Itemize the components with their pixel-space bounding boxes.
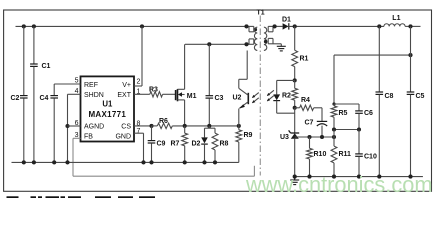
wire V+ pin 2 (134, 85, 142, 87)
node R1 top junction (293, 24, 297, 28)
diode D1 (282, 25, 284, 27)
svg-text:SHDN: SHDN (84, 92, 104, 99)
capacitor C2 (23, 26, 25, 95)
svg-text:CS: CS (121, 123, 131, 130)
wire R4 lead (295, 107, 300, 109)
svg-text:FB: FB (84, 133, 93, 140)
isolation barrier dash-dot line (259, 16, 261, 176)
svg-text:GND: GND (115, 133, 131, 140)
svg-text:C5: C5 (416, 93, 425, 100)
node T1 secondary top junction (273, 24, 277, 28)
svg-text:V+: V+ (122, 82, 131, 89)
wire sense down to R5 (333, 55, 335, 104)
svg-text:T1: T1 (257, 9, 265, 16)
transformer T1 primary coil (254, 27, 257, 50)
capacitor C1 (33, 26, 35, 63)
node T1 primary top junction (244, 24, 248, 28)
wire U3 ref line (295, 136, 334, 138)
wire R2 bottom to U3 (294, 108, 296, 133)
node rail junction SHDN riser (65, 160, 69, 164)
svg-text:R7: R7 (171, 141, 180, 148)
svg-text:D2: D2 (192, 141, 201, 148)
wire top input rail (16, 25, 250, 27)
U2 light arrows (252, 93, 258, 98)
wire AGND pin 6 (68, 125, 81, 127)
capacitor C4 (53, 84, 55, 95)
resistor R5 (333, 104, 335, 106)
svg-text:EXT: EXT (117, 92, 131, 99)
svg-text:C8: C8 (385, 93, 394, 100)
node secondary rail junction R11 (332, 175, 336, 179)
node C6 bottom junction (357, 127, 361, 131)
svg-text:R6: R6 (159, 118, 168, 125)
LED light arrows (267, 90, 274, 95)
capacitor C10 (358, 130, 360, 154)
node rail junction D2 (202, 160, 206, 164)
capacitor C5 (410, 26, 412, 55)
border frame (4, 10, 432, 191)
capacitor C3 (208, 44, 210, 95)
svg-text:R10: R10 (314, 151, 327, 158)
T1 phase dot primary (254, 28, 257, 31)
node R7 top junction (183, 124, 187, 128)
wire FB pin 3 (73, 137, 81, 139)
svg-text:R11: R11 (339, 151, 352, 158)
T1 phase dot secondary (264, 40, 267, 43)
wire REF pin 5 (54, 83, 80, 85)
svg-text:C3: C3 (215, 95, 224, 102)
transistor U2 phototransistor (247, 93, 249, 104)
wire R4 to C7 (314, 107, 322, 109)
wire SHDN pin 4 (68, 93, 81, 95)
svg-text:R4: R4 (301, 97, 310, 104)
wire after L1 (405, 25, 420, 27)
svg-text:C10: C10 (364, 154, 377, 161)
capacitor C7 (317, 120, 327, 122)
node VIN junction C1 (32, 24, 36, 28)
wire divider mid line (334, 129, 359, 131)
node AGND junction (65, 124, 69, 128)
wire GND pin 7 (134, 132, 144, 134)
wire T1 secondary bottom lead (273, 43, 281, 45)
node R4 junction (293, 106, 297, 110)
node R5 bottom junction (332, 127, 336, 131)
wire R3 to gate (163, 93, 176, 95)
node rail junction C4 (52, 160, 56, 164)
node C8 top junction (377, 24, 381, 28)
resistor R3 (150, 92, 163, 97)
wire secondary ground rail (295, 176, 423, 178)
svg-text:C6: C6 (364, 110, 373, 117)
wire EXT pin 1 (134, 93, 150, 95)
svg-text:REF: REF (84, 82, 98, 89)
wire D2 R8 top bar (208, 126, 210, 128)
wire CS to R6 (152, 125, 158, 127)
op-amp U1 MAX1771 box (81, 76, 135, 141)
svg-text:MAX1771: MAX1771 (88, 110, 126, 119)
transformer T1 secondary coil (264, 27, 267, 50)
node rail junction C9 (149, 160, 153, 164)
node secondary rail junction U3 (293, 175, 297, 179)
svg-text:2: 2 (137, 79, 141, 86)
wire C6 branch (334, 103, 359, 105)
op-amp U3 shunt regulator (291, 132, 300, 134)
wire R6 to R9 (172, 125, 239, 127)
svg-text:M1: M1 (187, 93, 197, 100)
wire primary ground rail (12, 161, 239, 163)
diode D2 (204, 128, 206, 137)
node secondary rail junction R10 (307, 175, 311, 179)
svg-text:R8: R8 (220, 141, 229, 148)
svg-text:R1: R1 (300, 56, 309, 63)
capacitor C9 (151, 126, 153, 140)
node secondary rail junction C10 (357, 175, 361, 179)
node C3 bottom junction (207, 124, 211, 128)
svg-text:R3: R3 (149, 87, 158, 94)
node T1 primary bottom junction (244, 42, 248, 46)
capacitor C8 (378, 26, 380, 91)
svg-text:D1: D1 (282, 16, 291, 23)
wire output sense line (334, 54, 411, 56)
node rail junction R8 (213, 160, 217, 164)
resistor R1 (294, 26, 296, 50)
svg-text:U3: U3 (280, 134, 289, 141)
resistor R2 (292, 88, 298, 100)
capacitor C6 (358, 104, 360, 111)
node C7 bottom junction (320, 135, 324, 139)
node rail junction R7 (183, 160, 187, 164)
resistor R7 (184, 126, 186, 133)
caption text top edge (7, 196, 19, 198)
node rail junction C2 (22, 160, 26, 164)
resistor R4 (300, 105, 314, 110)
inductor L1 (384, 24, 405, 27)
node R11 top junction (332, 135, 336, 139)
node CS C9 junction (149, 124, 153, 128)
resistor R9 (238, 126, 240, 130)
resistor R11 (333, 130, 335, 147)
node R10 top junction (307, 135, 311, 139)
node sense C5 junction (408, 53, 412, 57)
svg-text:C2: C2 (11, 95, 20, 102)
node rail junction C1 (32, 160, 36, 164)
svg-text:C9: C9 (157, 141, 166, 148)
node R2 top junction (293, 78, 297, 82)
wire T1 secondary top lead (273, 25, 283, 27)
wire output line (289, 25, 384, 27)
wire FB feedback run (73, 175, 254, 177)
ground secondary (294, 177, 296, 180)
svg-text:AGND: AGND (84, 123, 104, 130)
svg-text:www.cntronics.com: www.cntronics.com (245, 172, 433, 197)
node secondary rail junction C5 (408, 175, 412, 179)
svg-text:C1: C1 (42, 63, 51, 70)
node secondary rail junction C8 (377, 175, 381, 179)
node rail junction GND pin (141, 160, 145, 164)
node R9 top junction (237, 124, 241, 128)
resistor R10 (309, 137, 311, 148)
transformer T1 primary top hook (248, 26, 250, 31)
svg-text:L1: L1 (392, 15, 400, 22)
svg-text:U2: U2 (233, 95, 242, 102)
node C3 top junction (207, 42, 211, 46)
transformer T1 secondary bottom hook (267, 38, 269, 43)
node VIN junction C2 (22, 24, 26, 28)
transformer T1 primary bottom hook (248, 39, 250, 44)
ground T1 secondary (277, 45, 286, 47)
node C6 branch junction (332, 102, 335, 105)
svg-text:R5: R5 (339, 110, 348, 117)
transistor M1 (175, 90, 177, 100)
diode opto LED (277, 79, 295, 81)
resistor R8 (214, 128, 216, 133)
wire CS pin 8 (134, 125, 152, 127)
wire drain to transformer (185, 43, 249, 45)
svg-text:C7: C7 (305, 120, 314, 127)
wire FB stub up (253, 166, 255, 176)
node VIN junction V+ riser (140, 24, 144, 28)
svg-text:R9: R9 (244, 132, 253, 139)
svg-text:C4: C4 (40, 95, 49, 102)
svg-text:R2: R2 (282, 93, 291, 100)
wire SHDN-AGND riser (67, 94, 69, 162)
transformer T1 secondary top hook (267, 26, 269, 31)
svg-text:U1: U1 (102, 100, 113, 109)
resistor R6 (157, 123, 172, 128)
node C5 top junction (408, 24, 412, 28)
